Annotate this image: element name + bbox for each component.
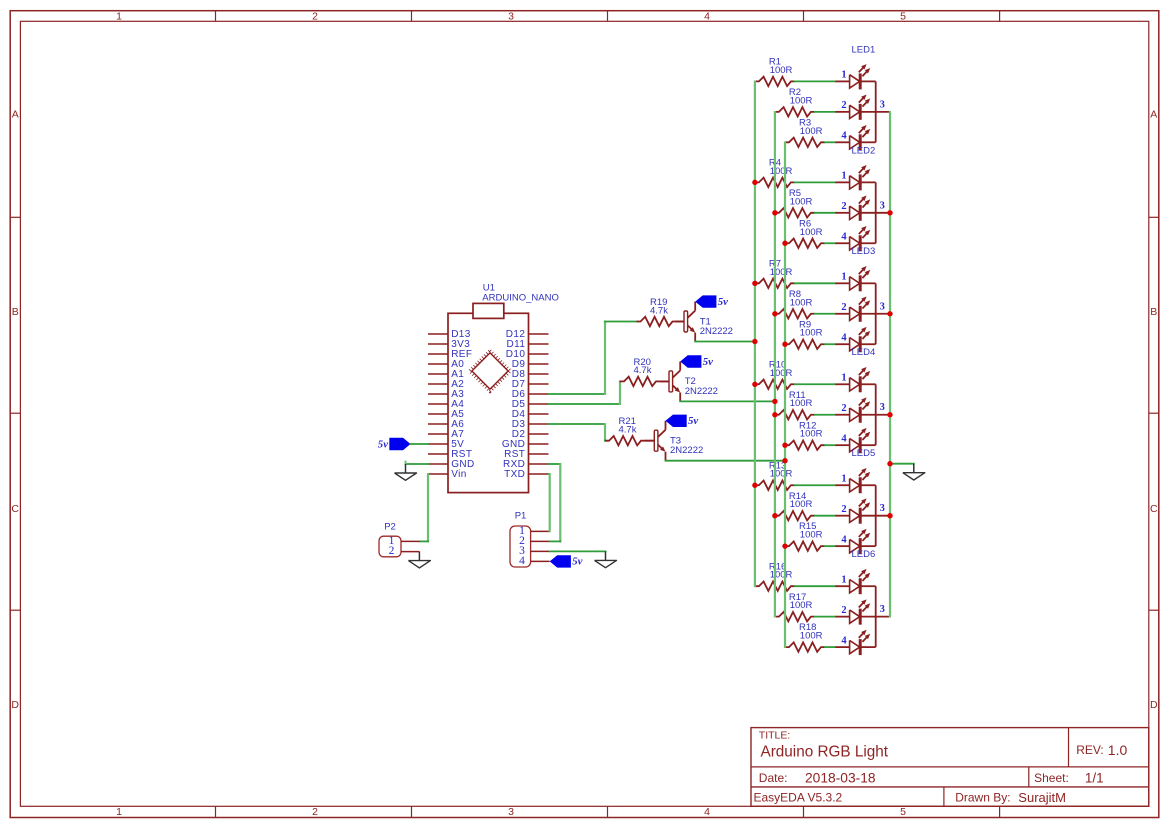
wire U1 D-pin to R21 (549, 423, 606, 425)
U1 pin D4 (right) (529, 413, 549, 415)
LED1 common vertical (875, 81, 877, 142)
resistor R7 100R (755, 279, 795, 288)
junction common bus (887, 210, 892, 215)
resistor R13 100R (755, 481, 795, 490)
svg-text:SurajitM: SurajitM (1018, 790, 1066, 805)
svg-text:D: D (11, 699, 19, 711)
svg-text:4: 4 (704, 11, 710, 23)
svg-text:2: 2 (312, 806, 318, 818)
U1 pin D11 (right) (529, 343, 549, 345)
junction common bus (887, 412, 892, 417)
svg-text:1.0: 1.0 (1108, 742, 1128, 758)
resistor R11 100R (775, 410, 815, 419)
svg-text:Arduino RGB Light: Arduino RGB Light (761, 743, 889, 760)
svg-text:100R: 100R (770, 368, 793, 379)
svg-text:LED4: LED4 (852, 347, 876, 358)
svg-text:2: 2 (841, 605, 846, 616)
svg-text:B: B (12, 306, 19, 318)
svg-text:100R: 100R (770, 570, 793, 581)
resistor R15 100R (785, 541, 825, 550)
svg-text:3: 3 (880, 99, 885, 110)
LED1 diode 2 (835, 111, 849, 113)
LED6 emission arrows (859, 632, 865, 638)
resistor R21 4.7k (605, 436, 645, 445)
svg-text:1: 1 (841, 171, 846, 182)
LED4 emission arrows (859, 399, 865, 405)
transistor T3 2N2222 (645, 440, 654, 442)
svg-text:100R: 100R (790, 297, 813, 308)
svg-text:LED5: LED5 (852, 448, 876, 459)
svg-text:2N2222: 2N2222 (670, 445, 703, 456)
svg-text:100R: 100R (800, 530, 823, 541)
U1 pin D12 (right) (529, 333, 549, 335)
LED3 emission arrows (859, 329, 865, 335)
svg-text:1: 1 (841, 574, 846, 585)
svg-text:LED1: LED1 (852, 44, 876, 55)
svg-text:P2: P2 (384, 522, 396, 533)
wire U1 D-pin to R19 (549, 393, 606, 395)
LED4 diode 2 (835, 414, 849, 416)
svg-text:2: 2 (389, 545, 395, 557)
wire R12 to LED4 (825, 444, 835, 446)
wire R4 to LED2 (795, 181, 836, 183)
LED5 diode 1 (835, 484, 849, 486)
resistor R8 100R (775, 309, 815, 318)
svg-text:C: C (11, 503, 19, 515)
power flag 5v at P1 pin 4 (550, 555, 571, 567)
title block (751, 728, 1149, 807)
LED3 diode 3 (835, 343, 849, 345)
wire R13 to LED5 (795, 484, 836, 486)
svg-text:1: 1 (116, 806, 122, 818)
LED3 diode 1 (835, 282, 849, 284)
LED1 diode 3 (835, 141, 849, 143)
U1 pin D10 (right) (529, 353, 549, 355)
junction bus3 (782, 342, 787, 347)
LED2 emission arrows (859, 198, 865, 204)
svg-text:5: 5 (900, 11, 906, 23)
U1 pin D6 (right) (529, 393, 549, 395)
transistor T1 2N2222 (677, 321, 685, 323)
U1 pin RST (left) (428, 453, 448, 455)
U1 pin GND (left) (428, 463, 448, 465)
LED3 emission arrows (859, 268, 865, 274)
ground at common bus (913, 464, 915, 473)
svg-text:100R: 100R (800, 631, 823, 642)
junction common bus (887, 311, 892, 316)
resistor R5 100R (775, 208, 815, 217)
LED2 diode 2 (835, 212, 849, 214)
junction bus1 (752, 382, 757, 387)
svg-text:ARDUINO_NANO: ARDUINO_NANO (482, 292, 559, 303)
svg-text:3: 3 (880, 200, 885, 211)
svg-text:100R: 100R (790, 95, 813, 106)
junction at bus1 / T1 emitter (752, 339, 757, 344)
wire 5v flag to 5V pin (411, 443, 429, 445)
junction at bus2 / T2 emitter (772, 399, 777, 404)
svg-text:1: 1 (841, 473, 846, 484)
wire P2 pin 2 to ground (418, 551, 420, 553)
LED5 emission arrows (859, 470, 865, 476)
resistor R12 100R (785, 440, 825, 449)
svg-text:100R: 100R (800, 328, 823, 339)
U1 pin RST (right) (529, 453, 549, 455)
wire T2 emitter to bus (680, 400, 775, 402)
wire U1 RXD to P1 pin 2 (549, 463, 561, 465)
svg-text:2: 2 (841, 504, 846, 515)
LED5 emission arrows (859, 531, 865, 537)
resistor R1 100R (755, 77, 795, 86)
svg-text:5v: 5v (718, 296, 728, 308)
LED2 diode 3 (835, 242, 849, 244)
svg-text:4: 4 (704, 806, 710, 818)
U1 pin A5 (left) (428, 413, 448, 415)
resistor R10 100R (755, 380, 795, 389)
wire R15 to LED5 (825, 545, 835, 547)
ground at P1 pin 3 (605, 551, 607, 560)
wire common bus (LED pin3 column) (889, 111, 891, 618)
op-amp U1 ARDUINO_NANO body (448, 313, 529, 492)
svg-text:4: 4 (841, 534, 847, 545)
U1 pin D8 (right) (529, 373, 549, 375)
resistor R2 100R (775, 107, 815, 116)
svg-text:TXD: TXD (504, 469, 525, 480)
resistor R19 4.7k (637, 317, 677, 326)
LED6 diode 1 (835, 585, 849, 587)
U1 pin A2 (left) (428, 383, 448, 385)
svg-text:4: 4 (841, 332, 847, 343)
wire R14 to LED5 (815, 515, 836, 517)
wire P1 pin 3 to ground (550, 550, 606, 552)
LED5 common vertical (875, 485, 877, 546)
svg-text:A: A (12, 109, 19, 121)
U1 pin A3 (left) (428, 393, 448, 395)
svg-text:100R: 100R (800, 227, 823, 238)
wire R18 to LED6 (825, 646, 835, 648)
LED6 emission arrows (859, 571, 865, 577)
LED1 emission arrows (859, 127, 865, 133)
LED2 emission arrows (859, 228, 865, 234)
svg-text:REV:: REV: (1076, 743, 1104, 757)
svg-text:100R: 100R (790, 600, 813, 611)
U1 pin D13 (left) (428, 333, 448, 335)
wire common bus to ground (890, 463, 914, 465)
LED3 common vertical (875, 283, 877, 344)
svg-text:1: 1 (841, 372, 846, 383)
svg-text:2: 2 (841, 100, 846, 111)
svg-text:1/1: 1/1 (1085, 770, 1104, 785)
svg-text:2: 2 (841, 302, 846, 313)
svg-text:4: 4 (841, 433, 847, 444)
svg-text:4.7k: 4.7k (619, 425, 637, 436)
resistor R9 100R (785, 340, 825, 349)
LED4 diode 1 (835, 383, 849, 385)
wire R9 to LED3 (825, 343, 835, 345)
svg-text:LED2: LED2 (852, 145, 876, 156)
svg-text:4: 4 (841, 131, 847, 142)
svg-text:D: D (1150, 699, 1158, 711)
LED5 diode 2 (835, 515, 849, 517)
power flag 5v at U1 5V pin (389, 438, 410, 450)
P1 pin 2 (531, 540, 550, 542)
connector P1 (510, 526, 531, 567)
LED5 diode 3 (835, 545, 849, 547)
svg-text:Vin: Vin (451, 469, 466, 480)
svg-text:C: C (1150, 503, 1158, 515)
LED6 diode 2 (835, 616, 849, 618)
svg-text:4: 4 (841, 635, 847, 646)
U1 pin A4 (left) (428, 403, 448, 405)
transistor T2 2N2222 (660, 380, 669, 382)
svg-text:LED6: LED6 (852, 549, 876, 560)
LED3 emission arrows (859, 298, 865, 304)
U1 pin GND (right) (529, 443, 549, 445)
U1 pin TXD (right) (529, 473, 549, 475)
wire T3 emitter to bus (666, 460, 786, 462)
svg-text:4: 4 (519, 555, 525, 567)
svg-text:4.7k: 4.7k (634, 365, 652, 376)
wire U1 TXD to P1 pin 1 (549, 473, 550, 475)
svg-text:3: 3 (508, 11, 514, 23)
svg-text:Date:: Date: (759, 771, 788, 785)
junction bus2 (772, 412, 777, 417)
wire R5 to LED2 (815, 212, 836, 214)
svg-text:100R: 100R (800, 429, 823, 440)
LED6 emission arrows (859, 601, 865, 607)
svg-text:4.7k: 4.7k (650, 305, 668, 316)
svg-text:Sheet:: Sheet: (1034, 771, 1069, 785)
junction bus3 (782, 543, 787, 548)
U1 pin D9 (right) (529, 363, 549, 365)
P2 pin 2 (401, 551, 419, 553)
resistor R20 4.7k (620, 377, 660, 386)
svg-text:100R: 100R (770, 166, 793, 177)
U1 pin D3 (right) (529, 423, 549, 425)
wire R3 to LED1 (825, 141, 835, 143)
resistor R17 100R (775, 612, 815, 621)
U1 pin A6 (left) (428, 423, 448, 425)
P1 pin 1 (531, 530, 550, 532)
junction bus3 (782, 241, 787, 246)
power flag 5v at T3 collector (666, 415, 687, 427)
ground at P2 pin 2 (418, 552, 420, 561)
LED6 common vertical (875, 586, 877, 647)
svg-text:100R: 100R (770, 469, 793, 480)
junction common bus at ground tap (887, 461, 892, 466)
resistor R14 100R (775, 511, 815, 520)
wire R7 to LED3 (795, 282, 836, 284)
U1 pin D2 (right) (529, 433, 549, 435)
wire U1 Vin to P2 pin 1 (427, 473, 429, 542)
svg-text:2N2222: 2N2222 (700, 326, 733, 337)
resistor R3 100R (785, 138, 825, 147)
svg-text:100R: 100R (770, 267, 793, 278)
LED6 diode 3 (835, 646, 849, 648)
LED3 diode 2 (835, 313, 849, 315)
svg-text:2: 2 (841, 201, 846, 212)
LED1 emission arrows (859, 66, 865, 72)
LED1 diode 1 (835, 80, 849, 82)
LED5 emission arrows (859, 500, 865, 506)
svg-text:3: 3 (880, 402, 885, 413)
U1 pin D7 (right) (529, 383, 549, 385)
LED1 emission arrows (859, 97, 865, 103)
LED2 common vertical (875, 182, 877, 243)
P1 pin 3 (531, 550, 550, 552)
U1 pin RXD (right) (529, 463, 549, 465)
wire R8 to LED3 (815, 313, 836, 315)
U1 pin D5 (right) (529, 403, 549, 405)
LED4 emission arrows (859, 369, 865, 375)
svg-text:100R: 100R (790, 499, 813, 510)
svg-text:5: 5 (900, 806, 906, 818)
wire R17 to LED6 (815, 616, 836, 618)
svg-text:100R: 100R (800, 126, 823, 137)
svg-text:100R: 100R (770, 65, 793, 76)
svg-text:2018-03-18: 2018-03-18 (805, 770, 876, 785)
P1 pin 4 (531, 560, 550, 562)
connector P2 (379, 536, 401, 557)
svg-text:100R: 100R (790, 196, 813, 207)
svg-text:TITLE:: TITLE: (759, 730, 791, 742)
junction bus2 (772, 311, 777, 316)
wire T1 emitter to bus (695, 341, 755, 343)
U1 pin 3V3 (left) (428, 343, 448, 345)
wire R11 to LED4 (815, 414, 836, 416)
wire bus 2 (T2 emitter to R2..R17) (774, 111, 776, 618)
wire R6 to LED2 (825, 242, 835, 244)
power flag 5v at T2 collector (680, 355, 701, 367)
U1 pin A7 (left) (428, 433, 448, 435)
svg-text:Drawn By:: Drawn By: (955, 791, 1010, 805)
junction bus1 (752, 281, 757, 286)
U1 IC chip glyph (470, 351, 511, 392)
junction at bus3 / T3 emitter (782, 458, 787, 463)
resistor R6 100R (785, 239, 825, 248)
svg-text:4: 4 (841, 231, 847, 242)
wire R16 to LED6 (795, 585, 836, 587)
junction common bus (887, 513, 892, 518)
svg-text:3: 3 (880, 604, 885, 615)
ground at U1 GND (405, 464, 407, 473)
wire bus 1 (T1 emitter to R1..R16) (754, 81, 756, 588)
svg-text:P1: P1 (515, 511, 527, 522)
wire U1 GND pin to ground (406, 463, 429, 465)
junction bus2 (772, 513, 777, 518)
svg-text:5v: 5v (378, 438, 388, 450)
junction bus2 (772, 210, 777, 215)
resistor R18 100R (785, 642, 825, 651)
svg-text:B: B (1150, 306, 1157, 318)
svg-text:A: A (1150, 109, 1157, 121)
junction bus3 (782, 442, 787, 447)
U1 pin A1 (left) (428, 373, 448, 375)
wire R2 to LED1 (815, 111, 836, 113)
svg-text:EasyEDA V5.3.2: EasyEDA V5.3.2 (754, 791, 843, 805)
junction bus1 (752, 483, 757, 488)
svg-text:3: 3 (880, 503, 885, 514)
svg-text:2: 2 (312, 11, 318, 23)
U1 pin REF (left) (428, 353, 448, 355)
svg-text:1: 1 (841, 70, 846, 81)
svg-text:5v: 5v (572, 556, 582, 568)
resistor R16 100R (755, 582, 795, 591)
svg-text:2: 2 (841, 403, 846, 414)
U1 pin A0 (left) (428, 363, 448, 365)
svg-text:2N2222: 2N2222 (685, 386, 718, 397)
junction bus1 (752, 180, 757, 185)
svg-text:LED3: LED3 (852, 246, 876, 257)
wire R10 to LED4 (795, 383, 836, 385)
P2 pin 1 (401, 540, 419, 542)
resistor R4 100R (755, 178, 795, 187)
LED2 emission arrows (859, 167, 865, 173)
U1 pin 5V (left) (428, 443, 448, 445)
svg-text:3: 3 (880, 301, 885, 312)
svg-text:5v: 5v (703, 356, 713, 368)
wire U1 D-pin to R20 (549, 403, 621, 405)
LED4 common vertical (875, 384, 877, 445)
svg-text:100R: 100R (790, 398, 813, 409)
LED4 emission arrows (859, 430, 865, 436)
U1 pin Vin (left) (428, 473, 448, 475)
LED2 diode 1 (835, 181, 849, 183)
svg-text:3: 3 (508, 806, 514, 818)
LED4 diode 3 (835, 444, 849, 446)
wire bus 3 (T3 emitter to R3..R18) (784, 141, 786, 648)
svg-text:5v: 5v (688, 415, 698, 427)
power flag 5v at T1 collector (695, 295, 716, 307)
svg-text:1: 1 (841, 272, 846, 283)
svg-text:1: 1 (116, 11, 122, 23)
wire R1 to LED1 (795, 80, 836, 82)
